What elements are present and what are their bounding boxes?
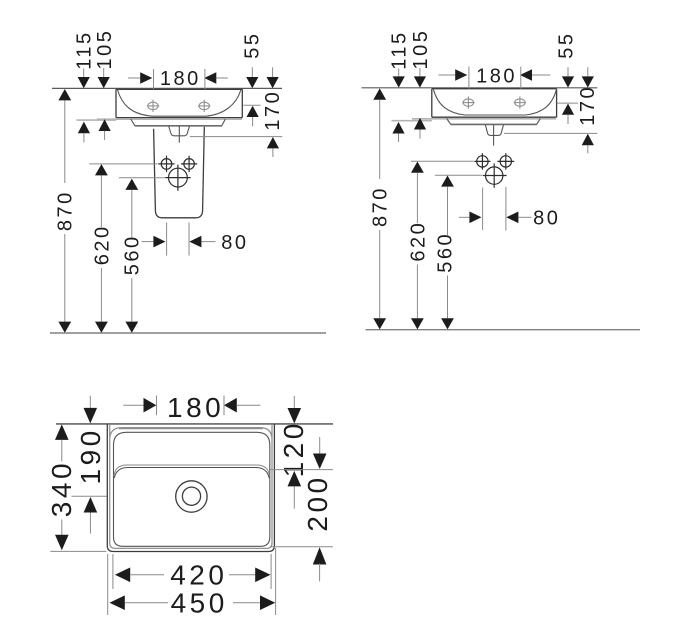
svg-text:870: 870 xyxy=(370,186,392,227)
dimension 200 V3 xyxy=(270,474,333,581)
svg-text:105: 105 xyxy=(94,29,116,70)
drain inner circle V3 xyxy=(182,487,200,505)
svg-text:200: 200 xyxy=(302,474,333,531)
svg-text:420: 420 xyxy=(170,560,227,591)
mounting ledge V2 xyxy=(447,119,541,125)
svg-text:80: 80 xyxy=(533,208,560,230)
faucet hole symbol left V1 xyxy=(147,100,159,112)
small fixing hole left V1 xyxy=(161,156,172,172)
svg-text:115: 115 xyxy=(74,30,96,69)
dimension 120 V3 xyxy=(270,396,333,509)
gray shadow line under basin V1 xyxy=(77,119,117,121)
dimension 80 V2 xyxy=(459,187,561,231)
faucet hole symbol right V2 xyxy=(514,96,526,108)
drain tailpipe V2 xyxy=(485,125,503,136)
outer body rect V3 xyxy=(107,424,274,552)
svg-text:55: 55 xyxy=(242,31,264,58)
dimension 105 V2 xyxy=(410,29,432,139)
rim top thick gray band V3 xyxy=(119,427,263,429)
wall line V1 xyxy=(52,87,282,89)
floor line V1 xyxy=(50,332,326,334)
dimension 560 V1 xyxy=(119,178,191,333)
svg-text:620: 620 xyxy=(91,224,113,265)
dimension 620 V1 xyxy=(89,164,174,333)
drain outer circle V3 xyxy=(176,481,207,512)
dimension 105 V1 xyxy=(94,29,116,140)
dimension 55 V2 xyxy=(555,31,578,124)
svg-text:620: 620 xyxy=(407,221,429,262)
svg-text:340: 340 xyxy=(46,460,77,517)
svg-text:180: 180 xyxy=(167,392,224,423)
dimension 420 V3 xyxy=(113,554,271,591)
dimension 870 V1 xyxy=(55,89,77,333)
inner gray offset rect V3 xyxy=(110,424,272,548)
faucet hole symbol left V2 xyxy=(462,96,474,108)
svg-text:105: 105 xyxy=(410,29,432,70)
drain center line V2 xyxy=(493,125,495,146)
dimension 180 V3 xyxy=(123,392,260,423)
svg-text:55: 55 xyxy=(555,31,577,58)
dimension 190 V3 xyxy=(72,396,107,534)
small fixing hole right V1 xyxy=(181,156,197,172)
dimension 80 V1 xyxy=(142,223,249,256)
tap deck divider line V3 xyxy=(114,465,270,478)
small fixing hole left V2 xyxy=(477,153,488,169)
svg-text:80: 80 xyxy=(221,232,248,254)
basin outline V1 xyxy=(116,89,242,117)
floor line V2 xyxy=(366,329,641,331)
small fixing hole right V2 xyxy=(497,153,514,169)
back wall line V3 xyxy=(56,423,333,425)
wall line V2 xyxy=(362,87,598,89)
dimension 620 V2 xyxy=(407,161,490,329)
dimension 115 V1 xyxy=(74,30,96,142)
big fixing hole V1 xyxy=(169,165,188,191)
svg-text:870: 870 xyxy=(55,190,77,231)
dimension 340 V3 xyxy=(46,424,106,551)
dimension 170 V2 xyxy=(504,67,599,153)
half pedestal V1 xyxy=(154,127,205,218)
svg-text:190: 190 xyxy=(75,427,106,484)
faucet hole symbol right V1 xyxy=(198,100,210,112)
svg-text:170: 170 xyxy=(577,85,599,126)
svg-text:170: 170 xyxy=(262,90,284,131)
dimension 115 V2 xyxy=(389,30,411,142)
dimension 870 V2 xyxy=(370,88,392,329)
inner rim rounded rect V3 xyxy=(114,432,270,546)
big fixing hole V2 xyxy=(486,163,503,187)
dimension 55 V1 xyxy=(242,31,264,126)
svg-text:120: 120 xyxy=(278,420,309,477)
svg-text:450: 450 xyxy=(171,588,228,619)
svg-text:180: 180 xyxy=(160,68,201,90)
mounting ledge V1 xyxy=(131,119,226,126)
svg-text:115: 115 xyxy=(389,30,411,69)
gray shadow line under basin V2 xyxy=(392,120,432,122)
dimension 560 V2 xyxy=(434,175,506,329)
dimension 450 V3 xyxy=(108,548,276,619)
dimension 180 V2 xyxy=(439,65,551,88)
basin outline V2 xyxy=(432,89,557,118)
dimension 180 V1 xyxy=(128,68,228,90)
svg-text:180: 180 xyxy=(476,65,517,87)
drain tailpipe V1 xyxy=(169,126,190,136)
drain center line V1 xyxy=(178,126,180,142)
svg-text:560: 560 xyxy=(122,234,144,275)
dimension 170 V1 xyxy=(190,67,284,157)
svg-text:560: 560 xyxy=(434,232,456,273)
